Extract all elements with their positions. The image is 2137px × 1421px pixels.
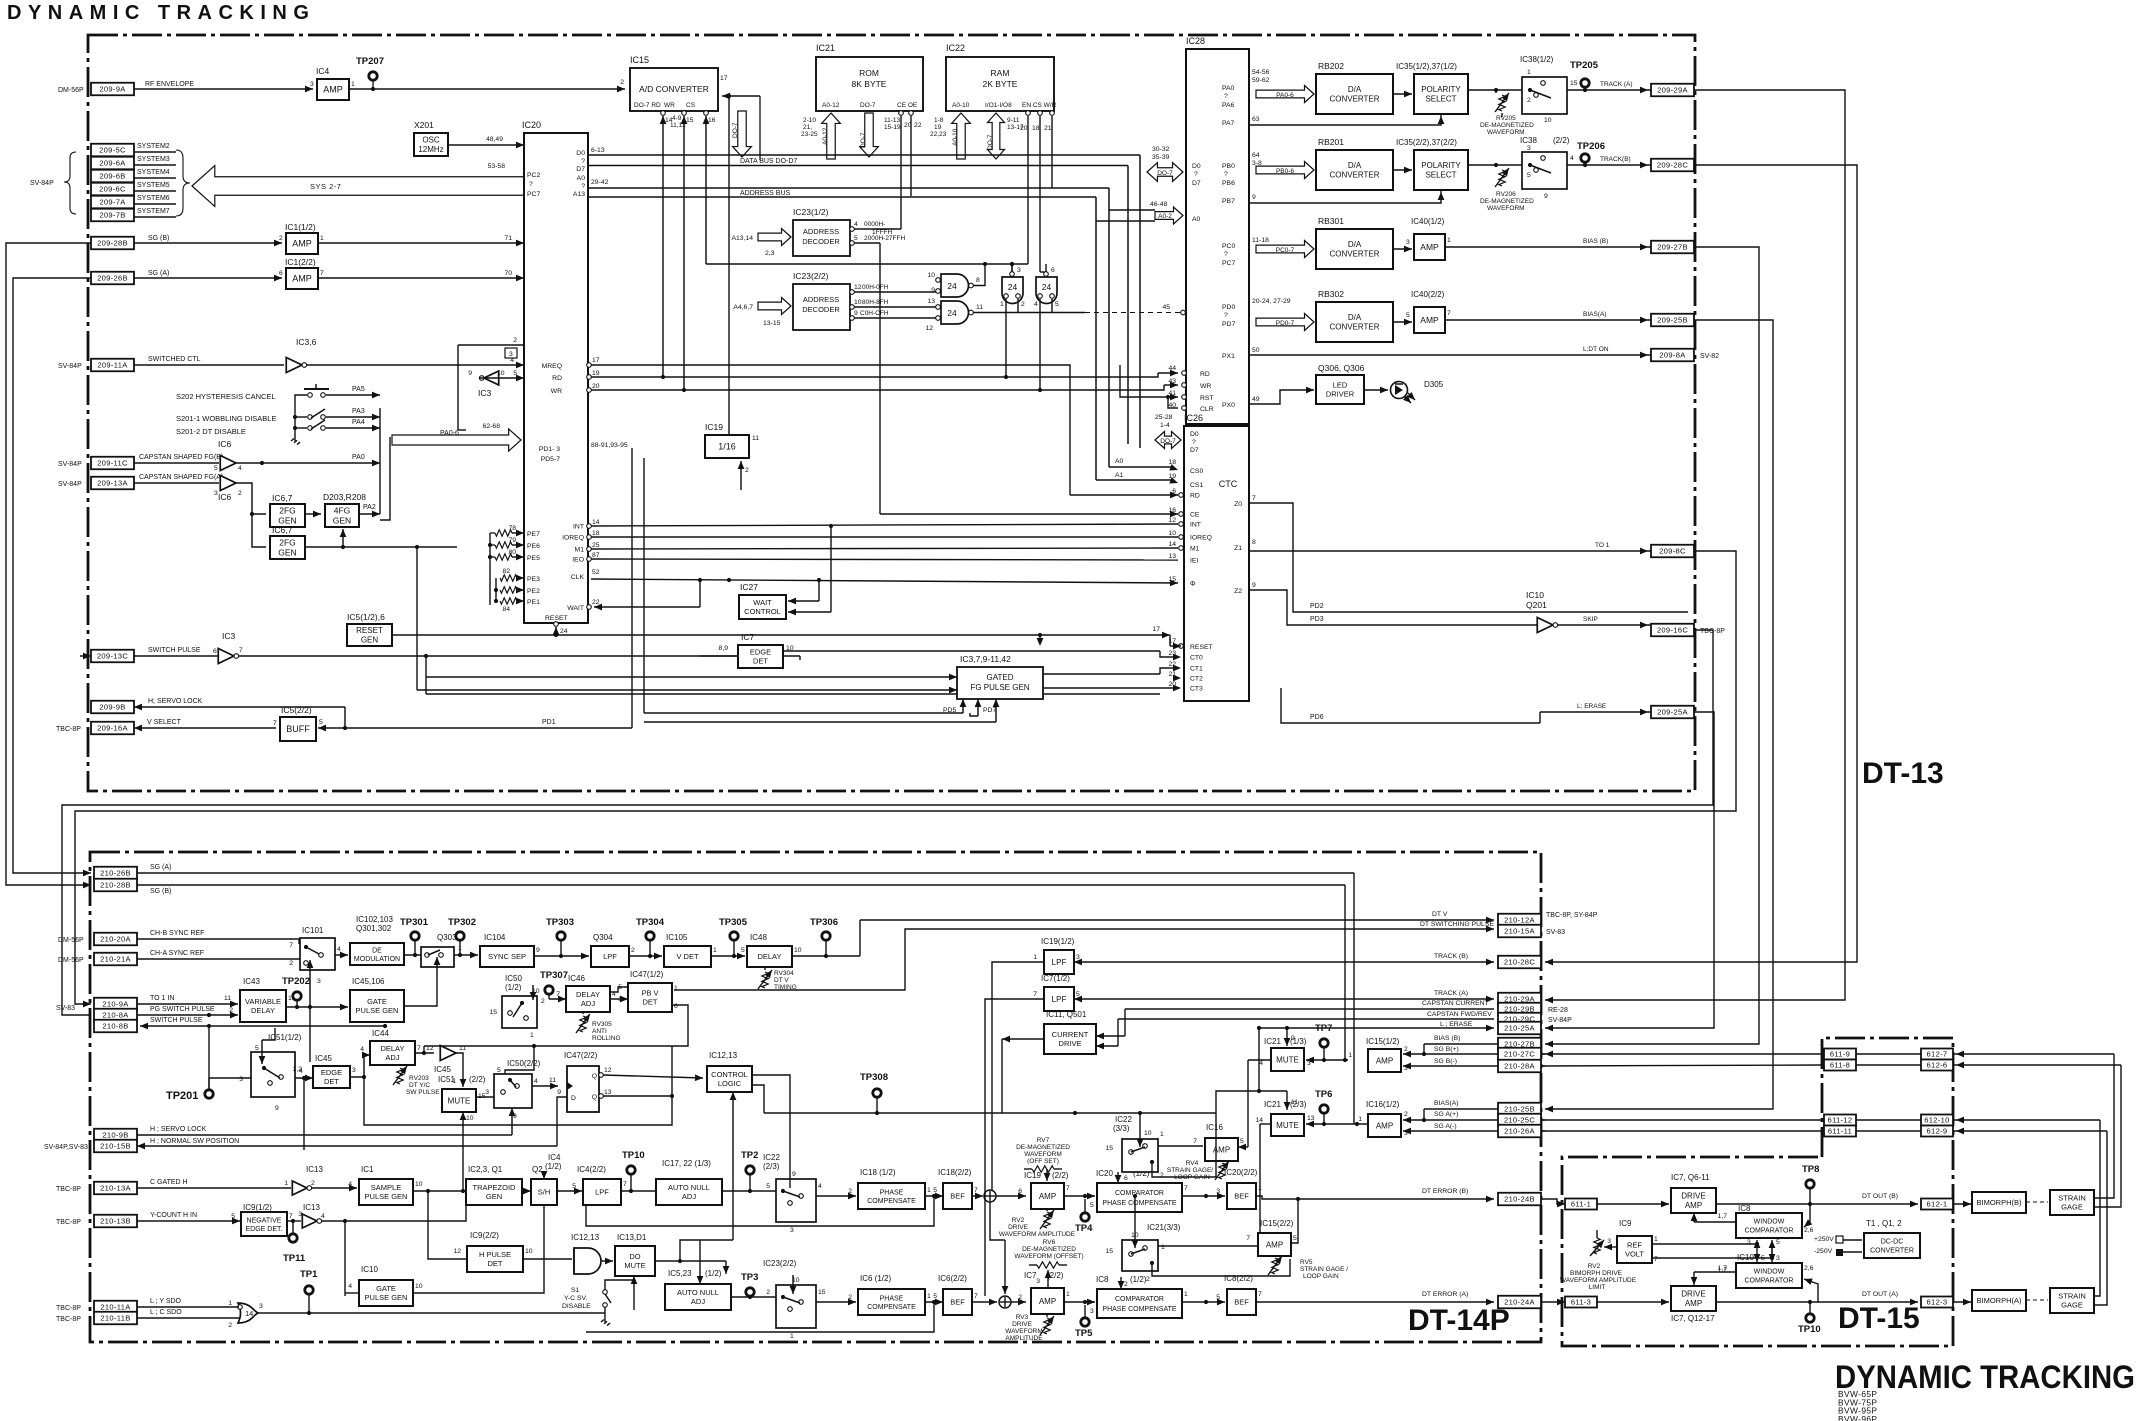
svg-text:IC28: IC28 <box>1186 36 1205 46</box>
svg-text:SELECT: SELECT <box>1425 95 1456 104</box>
svg-text:12: 12 <box>1168 517 1176 524</box>
svg-text:PD0-7: PD0-7 <box>1276 320 1295 327</box>
svg-text:3: 3 <box>1017 267 1021 274</box>
svg-text:IOREQ: IOREQ <box>1190 535 1212 542</box>
svg-text:WAVEFORM AMPLITUDE: WAVEFORM AMPLITUDE <box>1560 1277 1637 1284</box>
svg-text:WAVEFORM: WAVEFORM <box>1487 129 1525 136</box>
svg-text:SV-83: SV-83 <box>56 1005 75 1012</box>
svg-text:IC47(2/2): IC47(2/2) <box>564 1051 598 1060</box>
svg-text:D0: D0 <box>576 150 585 157</box>
svg-text:DE-MAGNETIZED: DE-MAGNETIZED <box>1016 1144 1070 1151</box>
rom CE OE wires <box>899 111 904 116</box>
svg-text:IC22: IC22 <box>763 1153 780 1162</box>
testpoint TP201 <box>205 1090 213 1098</box>
svg-text:19: 19 <box>592 370 600 377</box>
svg-text:TBC-8P: TBC-8P <box>56 1186 81 1193</box>
svg-text:IC4: IC4 <box>316 66 330 76</box>
svg-text:ADDRESS: ADDRESS <box>803 227 839 236</box>
connector 612-3 <box>1921 1297 1953 1308</box>
svg-text:PA6: PA6 <box>1222 102 1235 109</box>
svg-text:1: 1 <box>1348 1052 1352 1059</box>
connector 210-24A <box>1498 1296 1541 1309</box>
svg-text:1,7: 1,7 <box>1718 1265 1728 1272</box>
svg-text:L ; C SDO: L ; C SDO <box>150 1309 182 1316</box>
svg-text:PHASE: PHASE <box>880 1295 904 1302</box>
connector 210-8A PG SWITCH PULSE <box>94 1009 137 1022</box>
trimmer RV206 de-magnetized waveform <box>1499 170 1505 186</box>
svg-text:10: 10 <box>497 370 505 377</box>
wire to bef IC6(2/2) <box>925 1301 943 1303</box>
connector 210-28C TRACK(B) <box>1498 956 1541 969</box>
svg-text:?: ? <box>1224 93 1228 100</box>
connector 210-27B <box>1498 1038 1541 1051</box>
svg-text:DO-7: DO-7 <box>860 132 867 148</box>
svg-text:209-28B: 209-28B <box>97 239 128 248</box>
svg-text:IC4: IC4 <box>548 1153 561 1162</box>
svg-text:?: ? <box>1192 439 1196 446</box>
svg-text:BIMORPH(A): BIMORPH(A) <box>1977 1296 2023 1305</box>
wire ic23 switch out <box>816 1301 856 1303</box>
wire sum2 input from above <box>990 1202 1005 1240</box>
svg-text:PHASE COMPENSATE: PHASE COMPENSATE <box>1102 1200 1176 1207</box>
svg-text:4: 4 <box>360 1046 364 1053</box>
wire ff D input <box>557 1097 567 1146</box>
svg-text:210-20A: 210-20A <box>100 935 131 944</box>
svg-text:ADJ: ADJ <box>581 999 595 1008</box>
gated fg outputs to CT2 CT3 <box>1043 673 1160 675</box>
svg-text:8: 8 <box>976 277 980 284</box>
svg-text:IC45: IC45 <box>315 1054 332 1063</box>
svg-text:11-13: 11-13 <box>884 117 901 124</box>
svg-text:7: 7 <box>1193 1138 1197 1145</box>
svg-text:TP1: TP1 <box>300 1269 318 1280</box>
svg-text:AMP: AMP <box>1420 315 1439 325</box>
svg-text:82: 82 <box>502 568 510 575</box>
svg-text:20-24, 27-29: 20-24, 27-29 <box>1252 298 1291 305</box>
svg-text:7: 7 <box>623 1181 627 1188</box>
svg-text:LIMIT: LIMIT <box>1589 1284 1606 1291</box>
svg-text:63: 63 <box>1252 116 1260 123</box>
svg-text:AUTO NULL: AUTO NULL <box>668 1183 710 1192</box>
wire BIAS(A) drop <box>1545 320 1773 1109</box>
svg-text:49: 49 <box>1252 396 1260 403</box>
svg-text:20: 20 <box>1020 125 1028 132</box>
wire ic21(3/3) to amp IC15(2/2) <box>1158 1245 1265 1247</box>
svg-text:7: 7 <box>1033 991 1037 998</box>
svg-text:T1 , Q1, 2: T1 , Q1, 2 <box>1866 1219 1902 1228</box>
wire BUFF feed <box>344 707 346 728</box>
svg-text:1: 1 <box>1527 69 1531 76</box>
bimorph B <box>1953 1203 1971 1205</box>
svg-text:4: 4 <box>1570 155 1574 162</box>
svg-text:5: 5 <box>1761 1255 1765 1262</box>
svg-text:D/A: D/A <box>1348 161 1362 170</box>
svg-text:210-8B: 210-8B <box>102 1022 128 1031</box>
connector 210-29A TRACK(A) <box>1498 993 1541 1006</box>
svg-text:IC13: IC13 <box>306 1165 323 1174</box>
svg-text:AMP: AMP <box>1376 1121 1393 1130</box>
svg-text:10: 10 <box>927 272 935 279</box>
wire sg a- into amp2 <box>1403 1130 1545 1132</box>
svg-text:LOOP GAIN: LOOP GAIN <box>1303 1273 1339 1280</box>
svg-text:WR: WR <box>664 102 675 109</box>
svg-text:1: 1 <box>284 1180 288 1187</box>
svg-text:DRIVE: DRIVE <box>1008 1224 1029 1231</box>
svg-text:6: 6 <box>1124 1175 1128 1182</box>
svg-text:(2/2): (2/2) <box>1047 1271 1064 1280</box>
svg-text:5: 5 <box>1216 1294 1220 1301</box>
svg-text:Q303: Q303 <box>437 933 457 942</box>
svg-text:REF: REF <box>1627 1241 1642 1250</box>
svg-text:9: 9 <box>468 370 472 377</box>
svg-text:RE-28: RE-28 <box>1548 1007 1568 1014</box>
testpoint TP10 <box>627 1166 635 1174</box>
connector 209-11A SWITCHED CTL <box>91 359 134 372</box>
svg-text:2: 2 <box>766 1289 770 1296</box>
svg-text:PA5: PA5 <box>352 386 365 393</box>
svg-text:COMPARATOR: COMPARATOR <box>1115 1296 1164 1303</box>
svg-text:CONTROL: CONTROL <box>711 1070 748 1079</box>
svg-text:RESET: RESET <box>545 615 568 622</box>
svg-text:209-7B: 209-7B <box>99 211 125 220</box>
svg-text:5: 5 <box>741 947 745 954</box>
svg-text:OSC: OSC <box>422 136 440 145</box>
svg-text:MUTE: MUTE <box>448 1096 471 1105</box>
testpoint TP302 <box>456 932 464 940</box>
svg-text:CONTROL: CONTROL <box>744 607 781 616</box>
wire RST CLR feeds <box>1163 396 1178 398</box>
svg-text:Y-C SV.: Y-C SV. <box>564 1295 587 1302</box>
svg-text:209-6B: 209-6B <box>99 172 125 181</box>
svg-text:209-11A: 209-11A <box>97 361 128 370</box>
svg-text:PB0: PB0 <box>1222 163 1235 170</box>
svg-text:LOGIC: LOGIC <box>718 1079 742 1088</box>
connector 209-27B <box>1651 241 1694 254</box>
strain gage B <box>2026 1201 2048 1203</box>
svg-text:A0: A0 <box>1115 458 1124 465</box>
svg-text:PD2: PD2 <box>1310 603 1324 610</box>
svg-text:3: 3 <box>239 1076 243 1083</box>
svg-text:STRAIN GAGE /: STRAIN GAGE / <box>1300 1266 1348 1273</box>
wire ic22 switch out to phase compensate <box>816 1195 856 1197</box>
svg-text:Q304: Q304 <box>593 933 613 942</box>
svg-text:2-10: 2-10 <box>803 117 816 124</box>
svg-text:IC18(2/2): IC18(2/2) <box>938 1168 972 1177</box>
svg-text:LPF: LPF <box>603 952 617 961</box>
connector 210-15A <box>1498 925 1541 938</box>
svg-text:D203,R208: D203,R208 <box>323 492 366 502</box>
svg-text:CH-B SYNC REF: CH-B SYNC REF <box>150 930 204 937</box>
svg-text:AMP: AMP <box>1685 1201 1702 1210</box>
svg-text:PD5-7: PD5-7 <box>541 456 560 463</box>
svg-text:35-39: 35-39 <box>1152 154 1170 161</box>
wire gate pulse gen up to Q303 <box>404 975 437 1006</box>
svg-text:EDGE: EDGE <box>750 648 771 657</box>
svg-text:IC45: IC45 <box>434 1065 451 1074</box>
svg-text:RST: RST <box>1200 395 1214 402</box>
board outline DT-13 <box>88 35 1695 791</box>
svg-text:BEF: BEF <box>1234 1298 1249 1307</box>
svg-text:PE3: PE3 <box>527 576 540 583</box>
svg-text:IC3,7,9-11,42: IC3,7,9-11,42 <box>960 654 1011 664</box>
ctc control wires from cpu <box>591 524 1178 526</box>
svg-text:PB V: PB V <box>641 989 658 998</box>
svg-text:SELECT: SELECT <box>1425 171 1456 180</box>
ctc RESET pin <box>1179 644 1184 649</box>
svg-text:(1/3): (1/3) <box>1290 1037 1307 1046</box>
svg-text:210-8A: 210-8A <box>102 1011 129 1020</box>
trimmer RV205 de-magnetized waveform <box>1499 95 1505 111</box>
svg-text:CAPSTAN SHAPED FG(A): CAPSTAN SHAPED FG(A) <box>139 474 223 481</box>
svg-text:5: 5 <box>497 1067 501 1074</box>
wire PD1 vertical <box>631 448 633 728</box>
svg-text:611-1: 611-1 <box>1571 1200 1591 1209</box>
svg-text:A0: A0 <box>577 175 586 182</box>
rom address bus arrow up <box>822 113 841 159</box>
svg-text:IC51: IC51 <box>438 1075 455 1084</box>
connector 209-8A <box>1651 349 1694 362</box>
svg-text:TP11: TP11 <box>283 1253 306 1264</box>
svg-text:DM-56P: DM-56P <box>58 957 84 964</box>
bus arrow PA0-6 into IC20 <box>392 429 521 451</box>
strain gage A <box>2026 1299 2048 1301</box>
svg-text:2K BYTE: 2K BYTE <box>983 79 1018 89</box>
svg-text:16: 16 <box>708 117 716 124</box>
svg-text:FG PULSE GEN: FG PULSE GEN <box>970 683 1029 692</box>
wire BIAS(A) out <box>1445 319 1651 321</box>
svg-text:IC35(1/2),37(1/2): IC35(1/2),37(1/2) <box>1396 62 1457 71</box>
svg-text:30-32: 30-32 <box>1152 146 1170 153</box>
svg-text:PC2: PC2 <box>527 172 540 179</box>
wire strain gage B feedback <box>2094 1054 2114 1198</box>
svg-text:TBC-8P: TBC-8P <box>56 1219 81 1226</box>
svg-text:209-16A: 209-16A <box>97 724 128 733</box>
data bus arrow to IC28 <box>1147 163 1183 182</box>
svg-text:DE-MAGNETIZED: DE-MAGNETIZED <box>1480 198 1534 205</box>
svg-text:24: 24 <box>1008 282 1018 292</box>
wire tp308 row <box>764 1112 1216 1114</box>
svg-text:TBC-8P: TBC-8P <box>56 726 81 733</box>
svg-text:VOLT: VOLT <box>1625 1250 1644 1259</box>
svg-text:IC104: IC104 <box>484 933 506 942</box>
svg-text:5: 5 <box>933 1187 937 1194</box>
svg-text:CH-A SYNC REF: CH-A SYNC REF <box>150 950 204 957</box>
svg-text:PA2: PA2 <box>363 504 376 511</box>
svg-text:3: 3 <box>509 351 513 358</box>
svg-text:1: 1 <box>1066 1291 1070 1298</box>
svg-text:10: 10 <box>1168 530 1176 537</box>
svg-text:1: 1 <box>927 1187 931 1194</box>
ctc chip selects A0 A1 <box>1109 466 1172 468</box>
svg-text:22,23: 22,23 <box>930 131 947 138</box>
buffer IC45 mid <box>440 1046 456 1061</box>
svg-text:TBC-8P: TBC-8P <box>56 1305 81 1312</box>
svg-text:10: 10 <box>466 1115 474 1122</box>
svg-text:6: 6 <box>279 270 283 277</box>
testpoint TP7 <box>1320 1039 1328 1047</box>
nand gate 24 vertical a <box>1002 277 1023 304</box>
svg-text:7: 7 <box>273 720 277 727</box>
svg-text:LED: LED <box>1333 381 1348 390</box>
svg-text:DO: DO <box>629 1252 640 1261</box>
svg-text:TP307: TP307 <box>540 970 568 981</box>
svg-text:PHASE COMPENSATE: PHASE COMPENSATE <box>1102 1306 1176 1313</box>
trimmer RV4 strain gage loop gain <box>1219 1163 1225 1179</box>
svg-text:IC15(2/2): IC15(2/2) <box>1260 1219 1294 1228</box>
svg-text:45: 45 <box>1162 304 1170 311</box>
svg-text:BUFF: BUFF <box>286 724 310 734</box>
svg-text:IC48: IC48 <box>750 933 767 942</box>
svg-text:10: 10 <box>794 947 802 954</box>
svg-text:AMP: AMP <box>1039 1297 1056 1306</box>
svg-text:SV-84P,SV-83: SV-84P,SV-83 <box>44 1144 88 1151</box>
svg-text:1: 1 <box>790 1333 794 1340</box>
svg-text:1,2: 1,2 <box>293 1066 303 1073</box>
svg-text:1: 1 <box>530 1032 534 1039</box>
svg-text:9: 9 <box>931 287 935 294</box>
trimmer RV304 DT V TIMING <box>762 972 768 988</box>
connector 210-27C <box>1498 1048 1541 1061</box>
svg-text:DECODER: DECODER <box>802 305 840 314</box>
svg-text:RV206: RV206 <box>1496 191 1516 198</box>
connector 210-26A <box>1498 1125 1541 1138</box>
svg-text:80H-8FH: 80H-8FH <box>862 299 889 306</box>
svg-text:210-9B: 210-9B <box>102 1131 128 1140</box>
svg-text:A13: A13 <box>573 191 585 198</box>
svg-text:(2/2): (2/2) <box>1052 1171 1069 1180</box>
wire SG(B) to amp to PB5 <box>134 242 282 244</box>
svg-text:1: 1 <box>1160 1131 1164 1138</box>
svg-text:AMPLITUDE: AMPLITUDE <box>1005 1335 1043 1342</box>
svg-text:D0: D0 <box>1192 163 1201 170</box>
trimmer RV3 drive waveform amplitude <box>1044 1318 1050 1334</box>
svg-text:1: 1 <box>1654 1236 1658 1243</box>
svg-text:209-26B: 209-26B <box>97 274 128 283</box>
connector 210-28B SG(B) <box>94 879 137 892</box>
svg-text:CAPSTAN CURRENT: CAPSTAN CURRENT <box>1422 1000 1489 1007</box>
svg-text:SYSTEM5: SYSTEM5 <box>137 182 170 189</box>
svg-text:3: 3 <box>1406 239 1410 246</box>
wire control logic up input <box>732 1092 734 1180</box>
svg-text:210-28C: 210-28C <box>1504 958 1535 967</box>
svg-text:MUTE: MUTE <box>624 1261 645 1270</box>
address bus bend down <box>1108 188 1110 467</box>
svg-text:DM-56P: DM-56P <box>58 87 84 94</box>
svg-text:ANTI: ANTI <box>592 1028 607 1035</box>
wire lpf1 track b <box>1074 961 1137 963</box>
svg-text:Y-COUNT H IN: Y-COUNT H IN <box>150 1212 197 1219</box>
svg-text:IC5(2/2): IC5(2/2) <box>281 705 312 715</box>
wire switch pulse row out <box>140 1025 385 1027</box>
svg-text:612-10: 612-10 <box>1924 1116 1949 1125</box>
svg-text:10: 10 <box>1144 1130 1152 1137</box>
svg-text:7: 7 <box>320 270 324 277</box>
svg-text:7: 7 <box>1246 1235 1250 1242</box>
svg-text:11: 11 <box>549 1077 556 1084</box>
svg-text:DT-15: DT-15 <box>1838 1302 1920 1335</box>
svg-text:24: 24 <box>1042 282 1052 292</box>
connector 209-28B SG(B) <box>91 237 134 250</box>
svg-text:AMP: AMP <box>1266 1240 1283 1249</box>
testpoint TP3 <box>746 1288 754 1296</box>
svg-text:DT Y/C: DT Y/C <box>409 1082 430 1089</box>
connector 209-13A capstan shaped FG(A) <box>91 477 134 490</box>
svg-text:A0-12: A0-12 <box>822 127 829 145</box>
svg-text:IC7: IC7 <box>1024 1271 1037 1280</box>
svg-text:AMP: AMP <box>292 274 312 284</box>
svg-text:12: 12 <box>604 1067 612 1074</box>
svg-text:5: 5 <box>1776 1239 1780 1246</box>
svg-text:D/A: D/A <box>1348 85 1362 94</box>
svg-text:210-9A: 210-9A <box>102 1000 129 1009</box>
svg-text:S202 HYSTERESIS CANCEL: S202 HYSTERESIS CANCEL <box>176 392 276 401</box>
svg-text:1: 1 <box>713 947 717 954</box>
svg-text:1: 1 <box>458 945 462 952</box>
svg-text:CT0: CT0 <box>1190 655 1203 662</box>
svg-text:IC21: IC21 <box>1264 1037 1281 1046</box>
svg-text:V DET: V DET <box>676 952 699 961</box>
svg-text:2,3: 2,3 <box>765 250 775 257</box>
svg-text:ADJ: ADJ <box>385 1053 399 1062</box>
svg-text:LPF: LPF <box>595 1188 609 1197</box>
svg-text:VARIABLE: VARIABLE <box>245 997 281 1006</box>
svg-text:INT: INT <box>573 524 584 531</box>
svg-text:IC23(2/2): IC23(2/2) <box>763 1259 797 1268</box>
wire h pulse det to and gate <box>523 1258 572 1260</box>
svg-text:1: 1 <box>228 1300 232 1307</box>
svg-text:53-58: 53-58 <box>488 163 506 170</box>
svg-text:2: 2 <box>1404 1046 1408 1053</box>
svg-text:SYS 2-7: SYS 2-7 <box>310 182 341 191</box>
svg-text:+250V: +250V <box>1814 1236 1834 1243</box>
svg-text:210-13A: 210-13A <box>100 1184 131 1193</box>
svg-text:17: 17 <box>592 357 600 364</box>
svg-text:TP206: TP206 <box>1577 141 1605 152</box>
svg-text:AMP: AMP <box>1376 1056 1393 1065</box>
svg-text:14: 14 <box>1168 541 1176 548</box>
buffer IC6 fga <box>134 482 219 484</box>
svg-text:BIMORPH(B): BIMORPH(B) <box>1977 1198 2023 1207</box>
svg-text:TP3: TP3 <box>741 1272 758 1283</box>
svg-text:2,6: 2,6 <box>1804 1265 1814 1272</box>
svg-text:1-4: 1-4 <box>1160 422 1170 429</box>
svg-text:209-8C: 209-8C <box>1659 547 1686 556</box>
svg-text:5: 5 <box>1240 1138 1244 1145</box>
svg-text:22: 22 <box>592 599 600 606</box>
svg-text:IC6: IC6 <box>218 492 232 502</box>
wire ic50(2/2) out to ff <box>532 1085 558 1087</box>
svg-text:IC47(1/2): IC47(1/2) <box>630 970 664 979</box>
drive amp IC7,Q12-17 <box>1671 1286 1716 1311</box>
svg-text:TP7: TP7 <box>1315 1023 1332 1034</box>
svg-text:M1: M1 <box>575 547 585 554</box>
svg-text:5: 5 <box>319 719 323 726</box>
svg-text:4: 4 <box>348 1283 352 1290</box>
svg-text:L ; ERASE: L ; ERASE <box>1440 1021 1473 1028</box>
svg-text:SYSTEM2: SYSTEM2 <box>137 143 170 150</box>
svg-text:IC7, Q12-17: IC7, Q12-17 <box>1671 1314 1715 1323</box>
svg-text:SWITCH PULSE: SWITCH PULSE <box>150 1017 203 1024</box>
svg-text:PA0: PA0 <box>352 454 365 461</box>
svg-text:611-9: 611-9 <box>1830 1050 1850 1059</box>
svg-text:4: 4 <box>348 1181 352 1188</box>
connector 209-25B <box>1651 314 1694 327</box>
svg-text:IC19: IC19 <box>1024 1171 1041 1180</box>
address bus <box>588 187 1109 189</box>
wire Q303 out to sync sep <box>454 954 478 956</box>
svg-text:RV4: RV4 <box>1186 1160 1199 1167</box>
wire IC101 select from below <box>309 960 311 1007</box>
